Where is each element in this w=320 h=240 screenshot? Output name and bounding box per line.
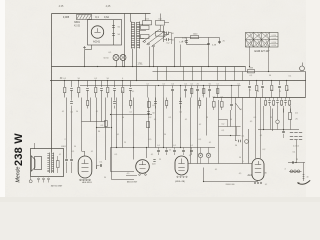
svg-text:0,1: 0,1 [71,112,74,114]
svg-text:50: 50 [269,75,271,77]
svg-text:0,5: 0,5 [250,121,252,123]
svg-text:0,1: 0,1 [94,78,97,80]
svg-text:0,1: 0,1 [221,96,224,98]
svg-text:0,3A: 0,3A [104,16,109,19]
svg-text:50: 50 [230,119,232,121]
svg-text:1761: 1761 [137,64,143,66]
svg-text:0,1: 0,1 [173,145,176,147]
svg-text:42 05: 42 05 [74,25,81,28]
svg-text:50: 50 [209,83,211,85]
svg-text:4: 4 [251,42,252,44]
svg-text:0,1: 0,1 [132,91,134,93]
svg-text:0,1: 0,1 [215,169,217,171]
svg-text:4,25: 4,25 [106,5,111,8]
svg-text:30: 30 [104,177,106,179]
svg-text:0,1: 0,1 [249,90,251,92]
svg-text:0,1: 0,1 [190,145,193,147]
svg-text:AL4 6301: AL4 6301 [82,181,92,184]
svg-text:6301 1957: 6301 1957 [127,181,138,183]
svg-text:50: 50 [78,78,80,80]
svg-text:25: 25 [279,91,281,93]
svg-text:50: 50 [164,134,166,136]
svg-text:0,1: 0,1 [91,151,93,153]
svg-text:0,5: 0,5 [213,96,216,98]
svg-text:25: 25 [270,117,272,119]
svg-text:25: 25 [169,150,171,152]
svg-text:0,1: 0,1 [63,78,66,80]
svg-text:25: 25 [124,142,126,144]
svg-text:0,2: 0,2 [149,117,152,119]
svg-text:0,2: 0,2 [199,124,201,126]
svg-text:0,1: 0,1 [289,76,292,78]
svg-text:30731 1957: 30731 1957 [51,185,63,187]
svg-text:0,1: 0,1 [151,154,153,156]
svg-text:WW: WW [249,68,253,70]
svg-text:0,1: 0,1 [154,119,156,121]
svg-text:0,1 50: 0,1 50 [272,45,277,47]
svg-text:20000 000: 20000 000 [226,184,235,186]
svg-text:50: 50 [122,117,124,119]
svg-text:50: 50 [257,91,259,93]
svg-text:50: 50 [153,113,155,115]
svg-text:0,1: 0,1 [287,90,289,92]
svg-text:0,1: 0,1 [180,112,183,114]
svg-text:ACH1: ACH1 [93,39,100,43]
svg-text:0,1: 0,1 [238,83,241,85]
svg-text:0,005: 0,005 [63,16,70,19]
svg-text:50: 50 [235,145,237,147]
svg-text:E446 227 447: E446 227 447 [255,50,271,53]
svg-text:0,1: 0,1 [217,83,220,85]
svg-text:Mende: Mende [16,167,22,183]
svg-text:0,1: 0,1 [169,117,172,119]
svg-text:50 50: 50 50 [103,58,109,60]
svg-text:0,1: 0,1 [199,139,202,141]
svg-text:0,1: 0,1 [240,109,242,111]
svg-text:6: 6 [202,95,203,97]
svg-text:40: 40 [307,177,309,179]
svg-text:0,1: 0,1 [254,117,257,119]
svg-text:0,1 50: 0,1 50 [272,35,277,37]
svg-text:0,1: 0,1 [293,152,296,154]
svg-text:4 25: 4 25 [59,5,64,8]
svg-text:0,1: 0,1 [242,136,245,138]
svg-text:0,1: 0,1 [163,83,166,85]
svg-text:50: 50 [76,111,78,113]
svg-text:AL4: AL4 [247,174,252,177]
svg-text:0,1: 0,1 [271,90,273,92]
svg-text:0,1: 0,1 [95,16,99,19]
svg-text:0,2: 0,2 [222,124,225,126]
svg-text:238 W: 238 W [13,133,25,166]
svg-text:0,2: 0,2 [263,149,266,151]
svg-text:25: 25 [197,83,199,85]
svg-text:50: 50 [107,78,109,80]
svg-text:0,1: 0,1 [191,83,194,85]
svg-text:0,1: 0,1 [184,83,187,85]
svg-text:0,1: 0,1 [96,111,98,113]
svg-text:0,1: 0,1 [189,155,191,157]
svg-text:(6301+2B): (6301+2B) [175,181,185,183]
svg-text:0,1: 0,1 [117,134,119,136]
svg-text:25: 25 [206,117,208,119]
svg-text:0,1: 0,1 [265,184,267,186]
svg-text:0,1: 0,1 [250,75,253,77]
svg-text:0,1 0,1: 0,1 0,1 [293,146,299,148]
svg-text:0,2: 0,2 [171,83,174,85]
svg-text:1: 1 [242,161,243,163]
svg-text:25: 25 [159,159,161,161]
svg-text:0,1: 0,1 [157,145,160,147]
svg-text:0,1 50: 0,1 50 [272,39,277,41]
svg-text:0,5: 0,5 [149,139,152,141]
svg-text:0,1: 0,1 [222,130,225,132]
svg-text:50: 50 [121,91,123,93]
svg-text:4: 4 [122,78,123,80]
svg-text:0,1: 0,1 [147,83,150,85]
svg-text:25: 25 [296,159,298,161]
svg-text:0,1: 0,1 [130,112,133,114]
svg-text:0,1: 0,1 [209,142,211,144]
svg-text:2: 2 [64,139,65,141]
svg-text:0,1: 0,1 [115,154,118,156]
svg-text:0,1: 0,1 [59,154,61,156]
svg-text:0,2: 0,2 [153,105,156,107]
svg-text:50: 50 [239,157,241,159]
svg-text:0,1: 0,1 [62,111,64,113]
svg-text:0,1: 0,1 [260,135,262,137]
svg-text:4,5: 4,5 [239,173,242,175]
svg-text:4: 4 [259,35,260,37]
svg-text:50: 50 [74,146,76,148]
svg-text:0,1: 0,1 [185,119,187,121]
